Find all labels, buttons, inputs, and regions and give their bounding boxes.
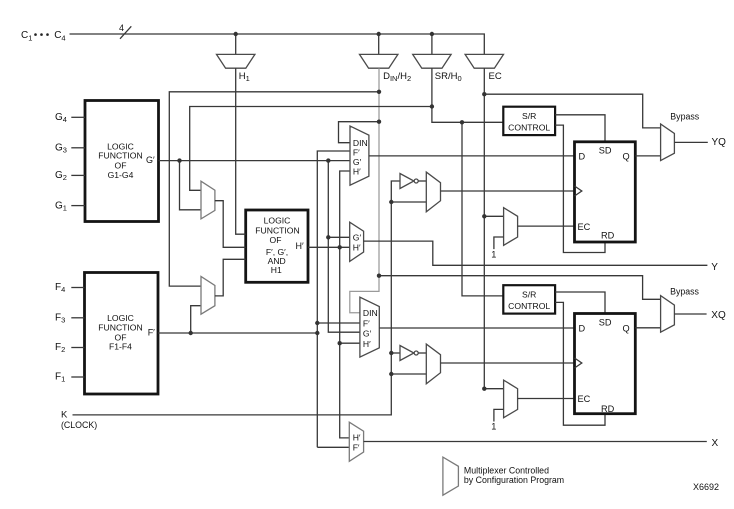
logic function box G1-G4 <box>85 101 159 222</box>
clock polarity mux 2 <box>426 344 440 384</box>
junction SR branch 2 <box>460 120 464 124</box>
junction on C line at H1 <box>234 32 238 36</box>
junction on C line at SR/H0 <box>430 32 434 36</box>
svg-text:Q: Q <box>623 152 630 162</box>
svg-text:OF: OF <box>270 235 282 245</box>
wire EC mux1 output to FF1 <box>518 225 575 227</box>
junction EC mux1 <box>482 214 486 218</box>
wire stub to DIN/H2 mux <box>378 34 380 54</box>
svg-text:G1-G4: G1-G4 <box>108 170 134 180</box>
mux C (G' vs H') for Y <box>350 222 364 261</box>
node F4 <box>55 282 85 294</box>
svg-text:CONTROL: CONTROL <box>508 301 550 311</box>
wire K clock line <box>73 181 401 415</box>
junction K muxin2b <box>389 372 393 376</box>
wire EC to EC mux 2 <box>484 388 503 390</box>
wire F' into mux E <box>317 446 349 448</box>
wire EC vertical <box>483 68 485 389</box>
mux B (DIN/H2 vs F') <box>201 277 215 315</box>
node G3 <box>55 142 85 154</box>
clock polarity mux 1 <box>426 172 440 212</box>
mux DIN/H2 (trapezoid) <box>360 54 398 68</box>
logic function box F1-F4 <box>85 273 159 395</box>
wire Q2 to bypass mux 2 <box>635 327 660 329</box>
wire H1 from mux to H box <box>236 68 246 234</box>
svg-text:G′: G′ <box>363 329 372 339</box>
wire G' line <box>159 160 351 162</box>
inverter 1 <box>400 174 426 189</box>
node F1 <box>55 371 85 383</box>
wire G' branch to mux C and mux D <box>328 161 360 333</box>
svg-text:F′: F′ <box>353 148 360 158</box>
svg-text:Bypass: Bypass <box>670 112 699 122</box>
wire S/R2 SD output <box>555 292 605 314</box>
mux EC (trapezoid) <box>465 54 503 68</box>
junction EC mux2 <box>482 387 486 391</box>
mux 4:1 DIN F' G' H' (lower) <box>360 297 379 357</box>
legend text <box>464 465 564 485</box>
wire DIN jog into 4:1 mux 1 <box>339 122 380 143</box>
wire EC to EC mux 1 <box>484 215 503 217</box>
node C1...C4 input label <box>21 30 66 43</box>
wire S/R1 RD output <box>555 125 605 252</box>
flip-flop FF2 <box>575 314 636 415</box>
svg-text:YQ: YQ <box>712 137 727 148</box>
svg-text:DIN: DIN <box>363 308 378 318</box>
svg-text:4: 4 <box>119 23 124 33</box>
svg-text:H′: H′ <box>353 242 361 252</box>
svg-text:S/R: S/R <box>522 290 536 300</box>
wire mux1 output to FF1 D <box>369 155 575 157</box>
node K clock input <box>61 409 97 430</box>
junction H' at muxD <box>338 341 342 345</box>
svg-text:XQ: XQ <box>711 310 726 321</box>
svg-text:F′: F′ <box>363 318 370 328</box>
wire mux B output to H box <box>215 259 246 296</box>
wire clock mux 1 to FF1 <box>441 190 575 192</box>
junction DIN/H2 at mux1 jog <box>377 120 381 124</box>
wire mux A output to H box <box>215 201 246 248</box>
wire EC branch to bypass mux 1 <box>484 94 660 128</box>
svg-text:FUNCTION: FUNCTION <box>98 322 142 332</box>
wire DIN/H2 main vertical (gray) <box>350 68 379 313</box>
mux H1 (trapezoid) <box>217 54 255 68</box>
wire F' into mux D <box>317 322 360 324</box>
svg-text:Multiplexer Controlled: Multiplexer Controlled <box>464 465 549 475</box>
junction K muxin2 <box>389 200 393 204</box>
mux SR/H0 (trapezoid) <box>413 54 451 68</box>
wire SR/H0 to S/R control 1 <box>432 68 503 122</box>
junction SR/H0 branch <box>430 104 434 108</box>
mux E (H' vs F') for X <box>349 422 363 461</box>
wire K to clock mux 2 input 2 <box>391 373 426 375</box>
svg-text:(CLOCK): (CLOCK) <box>61 420 97 430</box>
wire DIN/H2 branch to mux B input (H2 loop) <box>169 92 379 286</box>
S/R control 2 box <box>503 285 555 313</box>
svg-text:H′: H′ <box>353 167 361 177</box>
bypass mux 2 <box>661 296 675 333</box>
wire YQ output <box>674 141 707 143</box>
legend mux symbol <box>443 457 459 495</box>
wire K to inverter 2 <box>391 352 400 354</box>
junction F' main <box>315 331 319 335</box>
bus width 4 slash <box>119 23 131 39</box>
wire stub to H1 mux <box>235 34 237 54</box>
wire K to clock mux 1 input 2 <box>391 201 426 203</box>
S/R control 1 box <box>503 107 555 135</box>
junction F' muxB branch <box>189 331 193 335</box>
wire S/R2 RD output <box>555 302 605 425</box>
svg-text:G′: G′ <box>146 155 155 165</box>
svg-text:X6692: X6692 <box>693 482 719 492</box>
node G4 <box>55 112 85 124</box>
wire G' into mux C <box>328 236 349 238</box>
svg-text:F1-F4: F1-F4 <box>109 342 132 352</box>
wire F' vertical to mux1 and mux E <box>317 151 350 447</box>
node F3 <box>55 312 85 324</box>
svg-text:by Configuration Program: by Configuration Program <box>464 475 564 485</box>
bypass mux 1 <box>661 124 675 161</box>
svg-text:LOGIC: LOGIC <box>264 216 291 226</box>
wire constant 1 stub for EC mux1 <box>491 237 503 259</box>
wire H' vertical from mux1 H input down to mux E <box>340 171 350 438</box>
junction H' line <box>338 245 342 249</box>
svg-text:EC: EC <box>489 71 502 82</box>
junction on C line at DIN/H2 <box>377 32 381 36</box>
svg-text:S/R: S/R <box>522 111 536 121</box>
svg-text:H′: H′ <box>363 339 371 349</box>
wire SR/H0 branch to mux A <box>190 107 432 191</box>
wire EC mux2 output to FF2 <box>518 398 575 400</box>
svg-text:Y: Y <box>711 262 718 273</box>
inverter 2 <box>400 346 426 361</box>
logic function box F' G' H1 <box>246 210 308 282</box>
junction G' at mux C <box>326 235 330 239</box>
node F2 <box>55 342 85 354</box>
svg-text:H′: H′ <box>353 433 361 443</box>
node G1 <box>55 200 85 212</box>
wire H' from H box to mux C <box>308 246 350 248</box>
mux 4:1 DIN F' G' H' (upper) <box>350 126 369 185</box>
EC mux 1 <box>504 208 518 246</box>
wire clock mux 2 to FF2 <box>441 362 575 364</box>
wire Y output <box>364 241 708 265</box>
junction G' muxA branch <box>177 158 181 162</box>
wire F' line <box>158 332 317 334</box>
wire X output <box>364 441 707 443</box>
svg-text:D: D <box>579 324 586 334</box>
svg-text:X: X <box>712 438 719 449</box>
svg-text:G′: G′ <box>353 233 362 243</box>
wire DIN/H2 branch to bypass mux 2 <box>379 276 661 300</box>
wire S/R1 SD output <box>555 115 605 142</box>
junction DIN/H2 at y276 <box>377 274 381 278</box>
svg-text:DIN: DIN <box>353 138 368 148</box>
svg-text:K: K <box>61 409 68 420</box>
wire G' branch to mux A <box>180 161 202 210</box>
svg-text:RD: RD <box>601 230 615 240</box>
svg-text:CONTROL: CONTROL <box>508 123 550 133</box>
svg-text:F′: F′ <box>353 442 360 452</box>
node G2 <box>55 170 85 182</box>
svg-text:F′: F′ <box>148 327 155 337</box>
svg-text:EC: EC <box>578 394 591 404</box>
junction EC bypass branch <box>482 92 486 96</box>
junction G' down branch <box>326 158 330 162</box>
wire XQ output <box>674 313 706 315</box>
svg-text:Q: Q <box>623 324 630 334</box>
svg-text:DIN/H2: DIN/H2 <box>383 71 411 83</box>
wire Q1 to bypass mux 1 <box>635 155 660 157</box>
svg-text:SD: SD <box>599 318 612 328</box>
svg-text:RD: RD <box>601 404 615 414</box>
svg-text:H1: H1 <box>271 265 282 275</box>
EC mux 2 <box>504 380 518 418</box>
svg-text:H′: H′ <box>296 241 304 251</box>
mux A (SR/H0 vs G') <box>201 181 215 219</box>
svg-text:1: 1 <box>491 422 496 432</box>
wire constant 1 stub for EC mux2 <box>491 409 503 431</box>
flip-flop FF1 <box>575 142 636 242</box>
wire stub to SR/H0 mux <box>431 34 433 54</box>
svg-text:Bypass: Bypass <box>670 286 699 296</box>
junction DIN/H2 at y92 <box>377 90 381 94</box>
junction F' at muxD branch <box>315 321 319 325</box>
svg-text:FUNCTION: FUNCTION <box>98 151 142 161</box>
wire F' branch to mux B <box>191 306 201 333</box>
wire SR/H0 branch to S/R control 2 <box>462 122 503 296</box>
wire H' into mux D <box>340 342 360 344</box>
svg-text:1: 1 <box>491 249 496 259</box>
junction K inv2 <box>389 351 393 355</box>
svg-text:D: D <box>579 152 586 162</box>
wire mux D output to FF2 D <box>379 327 574 329</box>
wire C bus line <box>70 34 485 54</box>
svg-text:EC: EC <box>578 222 591 232</box>
svg-text:SD: SD <box>599 146 612 156</box>
